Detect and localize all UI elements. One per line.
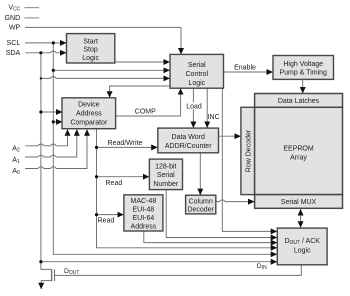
svg-text:A2: A2: [12, 145, 20, 154]
svg-text:GND: GND: [5, 14, 21, 22]
wire WP to Serial Control Logic top: [25, 27, 181, 54]
svg-text:DOUT: DOUT: [64, 268, 79, 276]
svg-text:Data Latches: Data Latches: [278, 98, 320, 105]
svg-text:DIN: DIN: [257, 263, 267, 271]
wire Serial Control Logic down to Dout/ACK Logic: [222, 88, 277, 231]
svg-text:SDA: SDA: [6, 49, 21, 57]
wire Read/Write to Data Word ADDR/Counter: [97, 146, 158, 148]
svg-text:Data Word: Data Word: [172, 134, 205, 141]
svg-text:EUI-48: EUI-48: [133, 206, 155, 213]
wire SCL vertical rail down to Dout/ACK Logic: [53, 43, 277, 254]
wire Read/Write rail from comparator bottom to Dout/ACK Logic: [97, 129, 278, 248]
svg-text:Device: Device: [78, 101, 100, 108]
wire Column Decoder to Serial MUX (hops over vertical): [216, 200, 255, 202]
svg-text:A0: A0: [12, 167, 20, 176]
wire 128-bit Serial Number down to Dout/ACK Logic: [166, 190, 277, 238]
block Column Decoder: [186, 195, 216, 214]
wire SDA branch to Serial Control Logic (hops over SCL rail): [41, 77, 170, 79]
svg-text:WP: WP: [9, 24, 21, 32]
pin VCC label: [8, 4, 20, 13]
wire High Voltage Pump to Data Latches: [302, 79, 304, 93]
svg-text:Serial: Serial: [188, 62, 206, 69]
svg-text:Enable: Enable: [234, 65, 256, 72]
svg-text:DOUT / ACK: DOUT / ACK: [284, 238, 320, 246]
svg-text:Array: Array: [290, 155, 307, 162]
node junction SDA branch: [40, 77, 42, 79]
transistor Q1 source wire to output arrow: [41, 281, 51, 289]
wire Data Word ADDR/Counter down to Column Decoder: [199, 153, 201, 195]
label Load: [186, 103, 203, 111]
svg-text:Read: Read: [98, 217, 115, 224]
wire A0 to comparator: [25, 130, 87, 169]
svg-text:Serial MUX: Serial MUX: [281, 199, 317, 206]
svg-text:COMP: COMP: [135, 109, 156, 116]
wire MAC-48 Address down to Dout/ACK Logic: [144, 231, 277, 242]
wire Enable from Serial Control Logic to High Voltage Pump: [224, 71, 273, 73]
svg-text:Serial: Serial: [157, 172, 175, 179]
pin VCC stub wire: [24, 7, 39, 9]
svg-text:Logic: Logic: [82, 55, 99, 62]
block EEPROM Array: [255, 107, 343, 194]
svg-text:Pump & Timing: Pump & Timing: [279, 70, 327, 77]
block 128-bit Serial Number: [149, 159, 182, 190]
svg-text:128-bit: 128-bit: [155, 164, 176, 171]
block Data Word ADDR/Counter: [158, 128, 219, 153]
svg-text:EUI-64: EUI-64: [133, 215, 155, 222]
svg-text:Address: Address: [131, 224, 157, 231]
svg-text:Column: Column: [189, 199, 213, 206]
node junction SCL branch: [52, 69, 55, 72]
wire SDA branch to Device Address Comparator: [41, 111, 62, 113]
node junction SDA to comparator: [39, 110, 42, 113]
block Device Address Comparator: [62, 98, 116, 129]
wire SCL to Start Stop Logic: [25, 42, 66, 44]
svg-text:ADDR/Counter: ADDR/Counter: [165, 143, 212, 150]
svg-text:Number: Number: [153, 181, 179, 188]
wire A1 to comparator: [25, 130, 77, 158]
block High Voltage Pump and Timing: [273, 56, 334, 80]
wire Load from Serial Control Logic to Data Word ADDR/Counter: [192, 88, 194, 127]
wire DOUT from Dout/ACK Logic to output transistor gate: [55, 265, 302, 276]
block MAC-48 EUI-48 EUI-64 Address: [124, 195, 163, 231]
block Start Stop Logic: [67, 34, 115, 63]
wire INC from Serial Control Logic to Data Word ADDR/Counter: [206, 88, 208, 127]
svg-text:INC: INC: [208, 114, 220, 121]
wire SDA vertical rail down to output driver: [41, 53, 52, 270]
wire Data Word ADDR/Counter to Row Decoder: [219, 135, 241, 137]
block Serial MUX: [255, 195, 343, 209]
svg-text:Logic: Logic: [294, 247, 311, 254]
svg-text:Address: Address: [76, 110, 102, 117]
node junction DIN: [39, 260, 42, 263]
wire Serial Control Logic to Device Address Comparator top: [110, 86, 170, 98]
svg-text:High Voltage: High Voltage: [283, 61, 323, 68]
svg-text:EEPROM: EEPROM: [283, 146, 314, 153]
svg-text:SCL: SCL: [6, 39, 20, 47]
pin GND stub wire: [24, 17, 39, 19]
wire A2 to comparator (hops over rails): [25, 130, 67, 146]
wire SCL branch to Serial Control Logic: [53, 69, 169, 71]
node junction Read upper: [95, 175, 98, 178]
wire COMP from comparator to Serial Control Logic bottom: [116, 88, 181, 116]
node junction Read/Write: [95, 146, 98, 149]
node junction SCL to comparator: [52, 120, 55, 123]
wire DIN from SDA rail to Dout/ACK Logic: [41, 261, 277, 263]
svg-text:Stop: Stop: [83, 47, 98, 54]
svg-text:VCC: VCC: [8, 4, 20, 13]
svg-text:Decoder: Decoder: [187, 206, 214, 213]
wire Start Stop Logic output to Serial Control Logic: [115, 61, 170, 63]
wire double arrow Serial MUX to Dout/ACK Logic: [300, 209, 302, 227]
svg-text:Start: Start: [83, 38, 98, 45]
wire Read to MAC-48 Address block: [97, 214, 124, 216]
svg-text:Comparator: Comparator: [70, 120, 108, 127]
wire SDA to Start Stop Logic: [25, 51, 66, 53]
block Data Latches: [255, 94, 343, 108]
transistor Q1 channel bar: [51, 269, 53, 281]
transistor Q1 output driver gate bar: [54, 270, 56, 281]
node SCL tap junction: [52, 41, 55, 44]
node SDA tap junction: [39, 51, 42, 54]
svg-text:Read/Write: Read/Write: [108, 140, 143, 147]
svg-text:A1: A1: [12, 156, 20, 165]
block Dout/ACK Logic: [277, 228, 327, 265]
svg-text:Load: Load: [186, 104, 202, 111]
svg-text:Logic: Logic: [188, 80, 205, 87]
svg-text:Control: Control: [186, 71, 209, 78]
block Serial Control Logic: [170, 54, 224, 88]
block Row Decoder: [241, 107, 255, 194]
wire SCL branch to Device Address Comparator: [53, 121, 62, 123]
svg-text:Read: Read: [106, 180, 123, 187]
node junction Read lower: [95, 213, 98, 216]
svg-text:MAC-48: MAC-48: [131, 198, 157, 205]
svg-text:Row Decoder: Row Decoder: [245, 129, 252, 172]
wire Read to 128-bit Serial Number: [97, 176, 150, 178]
